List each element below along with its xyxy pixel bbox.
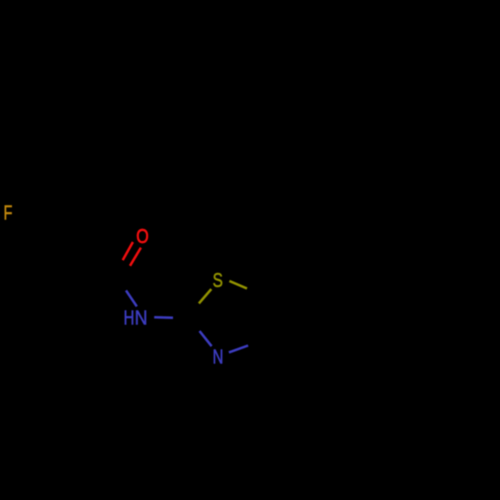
bond S-C5 (sulfur half, yellow): [229, 281, 247, 289]
bond N3-C4 (nitrogen half, blue): [229, 346, 248, 353]
svg-text:O: O: [136, 225, 148, 247]
bond N-C(=O) (nitrogen half, blue): [126, 290, 137, 306]
svg-text:N: N: [135, 308, 148, 330]
fluorine F: [3, 201, 12, 224]
bond N-C2 thiazole (nitrogen half, blue, horizontal): [154, 316, 173, 319]
svg-text:N: N: [213, 345, 224, 368]
amide N: [135, 308, 148, 330]
carbonyl oxygen O: [136, 225, 148, 247]
thiazole sulfur S: [213, 269, 223, 291]
svg-text:F: F: [3, 201, 12, 224]
bond S-C2 (sulfur half, yellow): [199, 289, 211, 303]
svg-text:H: H: [124, 307, 135, 330]
svg-text:S: S: [213, 269, 223, 291]
amide H: [124, 307, 135, 330]
bond N3-C2 (nitrogen half, blue): [200, 331, 212, 346]
C=O double bond (oxygen half, two red lines): [123, 242, 141, 266]
thiazole nitrogen N3: [213, 345, 224, 368]
